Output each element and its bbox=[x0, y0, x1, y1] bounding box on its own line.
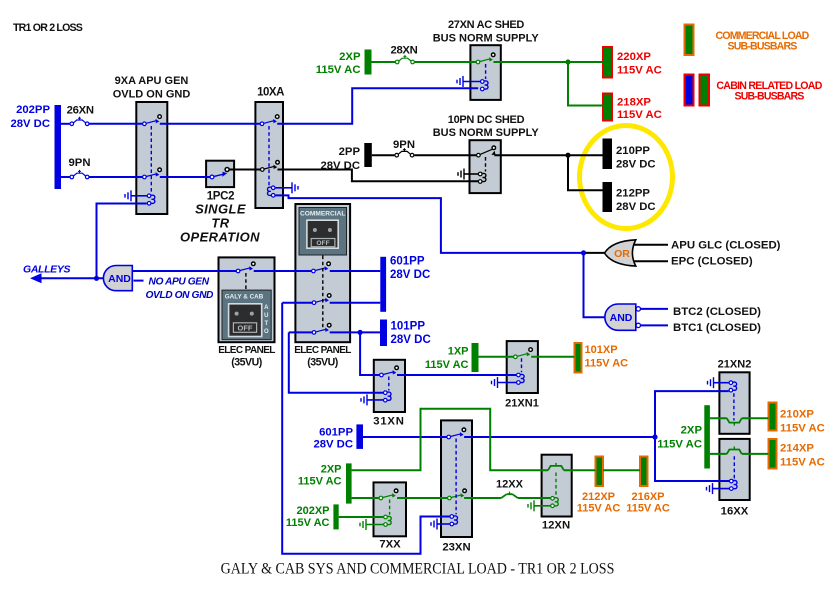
wire ground 21XN1 link bbox=[498, 382, 517, 384]
coil 23XN bbox=[450, 515, 457, 526]
wire 2XP to 7XX bbox=[352, 497, 379, 499]
svg-text:28V DC: 28V DC bbox=[390, 269, 430, 281]
wire 16XX contact to 214XP left bbox=[710, 453, 727, 455]
elec panel 35VU left box bbox=[219, 257, 275, 342]
wire 10XA coil to OR junction bbox=[275, 195, 581, 253]
wire node up to 21XN2 coil bbox=[655, 391, 729, 437]
svg-text:216XP: 216XP bbox=[631, 491, 664, 503]
coil 21XN2 bbox=[729, 381, 737, 392]
svg-text:2PP: 2PP bbox=[339, 146, 361, 158]
wire OR node down to AND bbox=[584, 253, 605, 317]
busbar 220XP bbox=[603, 47, 612, 78]
junction 220XP feed bbox=[565, 59, 570, 64]
svg-text:BTC1 (CLOSED): BTC1 (CLOSED) bbox=[673, 322, 761, 334]
svg-text:OR: OR bbox=[614, 248, 630, 260]
svg-text:115V AC: 115V AC bbox=[617, 109, 662, 121]
wire 10PN to 210PP bbox=[494, 154, 602, 156]
svg-text:21XN1: 21XN1 bbox=[505, 398, 539, 410]
svg-text:212PP: 212PP bbox=[616, 188, 650, 200]
svg-text:OVLD ON GND: OVLD ON GND bbox=[146, 290, 215, 301]
wire 7XX to 23XN row2 bbox=[397, 497, 447, 499]
svg-text:2XP: 2XP bbox=[681, 425, 703, 437]
elec panel 35VU middle box bbox=[295, 204, 350, 342]
wire 10XA to 10PN coil bbox=[278, 170, 479, 182]
svg-text:601PP: 601PP bbox=[390, 256, 425, 268]
svg-text:214XP: 214XP bbox=[780, 443, 814, 455]
busbar 1XP bbox=[472, 343, 479, 372]
busbar 218XP bbox=[603, 94, 612, 121]
contact 9XA row1 bbox=[143, 115, 162, 126]
dashed link 9XA bbox=[150, 126, 152, 193]
svg-text:115V AC: 115V AC bbox=[316, 64, 361, 76]
circuit breaker 26XN bbox=[70, 117, 89, 126]
svg-text:TR1 OR 2 LOSS: TR1 OR 2 LOSS bbox=[13, 22, 83, 34]
svg-text:28V DC: 28V DC bbox=[616, 159, 656, 171]
inverter bubble BTC1 bbox=[636, 323, 640, 327]
wire AND input BTC2 bbox=[641, 308, 668, 310]
AND gate right (BTC) bbox=[605, 304, 636, 330]
busbar 202PP bbox=[55, 105, 62, 189]
svg-text:115V AC: 115V AC bbox=[626, 503, 670, 515]
svg-text:EPC (CLOSED): EPC (CLOSED) bbox=[671, 256, 753, 268]
coil 9XA bbox=[147, 194, 155, 205]
wire 101PP node down to 31XN bbox=[360, 332, 379, 375]
svg-text:23XN: 23XN bbox=[442, 542, 470, 554]
wire 9PN to 10PN bbox=[414, 154, 476, 156]
svg-text:202PP: 202PP bbox=[16, 104, 50, 116]
svg-text:212XP: 212XP bbox=[582, 491, 615, 503]
relay 10XA box bbox=[255, 102, 283, 208]
busbar 2XP right bbox=[704, 405, 710, 468]
wire 212XP to 216XP bbox=[603, 469, 640, 471]
wire ground 10XA link bbox=[275, 187, 292, 189]
wire 21XN1 to 101XP bbox=[531, 356, 574, 358]
dashed link 10PN bbox=[485, 157, 487, 172]
contact 10PN bbox=[477, 146, 496, 157]
wire AND output up to 9XA coil bbox=[97, 204, 147, 279]
contact 10XA row1 bbox=[260, 115, 279, 126]
dashed link 21XN1 bbox=[521, 358, 523, 372]
contact 1PC2 bbox=[210, 168, 229, 179]
busbar 101XP bbox=[575, 343, 582, 373]
wire OR input APU GLC bbox=[629, 244, 668, 246]
wire ground 7XX link bbox=[366, 524, 383, 526]
wire ground 10PN link bbox=[464, 173, 478, 175]
busbar 2XP top bbox=[365, 50, 372, 75]
svg-text:2XP: 2XP bbox=[339, 51, 361, 63]
svg-text:BTC2 (CLOSED): BTC2 (CLOSED) bbox=[673, 306, 761, 318]
wire AND-left input2 stub bbox=[134, 280, 144, 282]
svg-text:9PN: 9PN bbox=[69, 157, 91, 169]
relay 21XN2 box bbox=[719, 372, 749, 434]
wire 1PC2 to 10XA black bbox=[229, 169, 260, 171]
svg-text:28V DC: 28V DC bbox=[313, 439, 353, 451]
busbar 601PP lower bbox=[356, 424, 363, 449]
ground 7XX bbox=[360, 519, 366, 530]
wire 1XP to 21XN1 bbox=[479, 356, 514, 358]
ground 31XN bbox=[361, 394, 367, 405]
wire ground 31XN link bbox=[367, 399, 383, 401]
svg-text:115V AC: 115V AC bbox=[780, 457, 825, 469]
wire AND input BTC1 bbox=[641, 324, 668, 326]
svg-text:SUB-BUSBARS: SUB-BUSBARS bbox=[728, 41, 798, 53]
wire 10XA to 27XN coil bbox=[277, 88, 478, 124]
svg-text:NO APU GEN: NO APU GEN bbox=[149, 277, 210, 288]
coil 10XA bbox=[268, 186, 276, 197]
contact 31XN bbox=[380, 366, 399, 377]
wire row3 left segment bbox=[289, 331, 312, 333]
pushbutton GALY & CAB bbox=[222, 290, 271, 340]
wire 202XP to 7XX coil bbox=[339, 516, 384, 518]
svg-text:SUB-BUSBARS: SUB-BUSBARS bbox=[735, 91, 805, 103]
contact 9XA row2 bbox=[143, 168, 162, 179]
junction AND output to 9XA coil bbox=[94, 276, 99, 281]
relay 23XN box bbox=[441, 420, 472, 537]
wire row3 down to 31XN coil bbox=[289, 332, 383, 392]
relay 16XX box bbox=[719, 439, 749, 500]
wire ground 27XN link bbox=[463, 81, 480, 83]
svg-text:ELEC PANEL: ELEC PANEL bbox=[294, 345, 351, 356]
wire row2 down to 23XN coil bbox=[282, 303, 450, 554]
wire ground 9XA link bbox=[131, 195, 147, 197]
coil 12XN bbox=[551, 497, 559, 508]
wire ground 16XX link bbox=[713, 488, 730, 490]
wire 601PP lower to 23XN bbox=[363, 436, 447, 438]
relay 27XN box bbox=[470, 45, 500, 100]
wire AND-left input1 bbox=[133, 270, 236, 272]
svg-text:SINGLE: SINGLE bbox=[195, 202, 246, 217]
legend cabin blue sample bbox=[685, 75, 694, 106]
ground 16XX bbox=[707, 483, 713, 494]
wire 12XX to 12XN coil bbox=[518, 497, 551, 499]
contact 16XX bridge bbox=[727, 447, 742, 454]
relay 12XN box bbox=[542, 455, 572, 517]
relay 1PC2 box bbox=[206, 161, 234, 187]
wire ground 12XN link bbox=[534, 505, 550, 507]
svg-text:115V AC: 115V AC bbox=[585, 358, 629, 370]
wire 26XN to 9XA bbox=[89, 123, 142, 125]
wire 9XA to 10XA row1 bbox=[160, 123, 260, 125]
contact panel2 row2 bbox=[312, 294, 331, 305]
circuit breaker 9PN mid bbox=[395, 148, 414, 157]
wire 202PP to 9PN bbox=[61, 176, 70, 178]
svg-text:(35VU): (35VU) bbox=[231, 357, 262, 369]
contact 23XN row1 bbox=[447, 428, 466, 439]
svg-text:GALY & CAB: GALY & CAB bbox=[225, 294, 264, 301]
wire row2 left segment bbox=[282, 302, 312, 304]
dashed link 31XN bbox=[388, 377, 390, 391]
svg-text:12XX: 12XX bbox=[496, 479, 524, 491]
dashed link panel2 bbox=[322, 256, 324, 331]
relay 10PN box bbox=[470, 140, 501, 193]
wire 31XN to 21XN1 coil bbox=[397, 374, 516, 376]
svg-text:OPERATION: OPERATION bbox=[180, 230, 260, 245]
svg-text:AND: AND bbox=[610, 312, 633, 324]
wire AND-left output to GALLEYS bbox=[41, 277, 104, 279]
wire 2PP to 9PN mid bbox=[372, 154, 395, 156]
svg-text:31XN: 31XN bbox=[373, 416, 404, 428]
busbar 212XP bbox=[596, 457, 604, 487]
wire panel2 row2 to 601PP bbox=[330, 302, 381, 304]
wire 2XP to 28XN bbox=[372, 61, 396, 63]
dashed link 7XX bbox=[389, 500, 391, 515]
dashed link 10XA bbox=[268, 126, 270, 186]
dashed link 23XN bbox=[455, 439, 457, 515]
busbar 212PP bbox=[603, 182, 613, 212]
wire panel2 row1 to 601PP bbox=[330, 270, 381, 272]
OR gate U1 bbox=[605, 240, 636, 266]
wire 28XN to 27XN bbox=[415, 61, 477, 63]
dashed link 27XN bbox=[485, 64, 487, 79]
ground 10PN bbox=[458, 169, 464, 180]
dashed link panel1 bbox=[245, 273, 247, 290]
relay 9XA box bbox=[136, 102, 167, 214]
svg-text:10XA: 10XA bbox=[257, 87, 284, 99]
contact panel1 GALY&CAB bbox=[236, 262, 255, 273]
ground 27XN bbox=[457, 76, 463, 87]
svg-text:115V AC: 115V AC bbox=[298, 476, 342, 488]
wire 21XN2 contact to 210XP right bbox=[742, 417, 769, 419]
svg-text:ELEC PANEL: ELEC PANEL bbox=[218, 345, 275, 356]
pushbutton COMMERCIAL bbox=[299, 208, 347, 256]
wire 23XN to 12XX bbox=[464, 497, 501, 499]
contact 21XN2 bridge bbox=[727, 418, 742, 425]
svg-text:BUS NORM SUPPLY: BUS NORM SUPPLY bbox=[433, 127, 540, 139]
ground 21XN2 bbox=[708, 377, 714, 388]
svg-text:APU GLC (CLOSED): APU GLC (CLOSED) bbox=[671, 240, 781, 252]
svg-text:OFF: OFF bbox=[316, 240, 329, 247]
svg-text:26XN: 26XN bbox=[67, 105, 94, 117]
wire drop to 212PP bbox=[568, 155, 603, 190]
svg-text:21XN2: 21XN2 bbox=[718, 359, 752, 371]
contact 12XN bridge bbox=[548, 463, 564, 470]
contact panel2 row3 bbox=[312, 323, 331, 334]
coil 21XN1 bbox=[517, 373, 525, 384]
svg-text:(35VU): (35VU) bbox=[307, 357, 338, 369]
wire panel1 to panel2 row1 bbox=[254, 270, 312, 272]
busbar 214XP bbox=[769, 439, 777, 469]
contact 10XA row2 bbox=[261, 161, 280, 172]
svg-text:7XX: 7XX bbox=[379, 539, 401, 551]
arrowhead GALLEYS bbox=[30, 273, 42, 283]
legend commercial sub-busbar sample bbox=[685, 25, 694, 56]
wire 202PP to 26XN bbox=[61, 123, 70, 125]
busbar 2XP lower-left bbox=[346, 463, 352, 503]
wire 9XA to 1PC2 bbox=[160, 176, 210, 178]
svg-text:COMMERCIAL: COMMERCIAL bbox=[300, 211, 345, 218]
svg-text:210XP: 210XP bbox=[780, 409, 814, 421]
contact 21XN1 bbox=[514, 348, 533, 359]
contact 23XN row2 bbox=[448, 489, 467, 500]
svg-text:BUS NORM SUPPLY: BUS NORM SUPPLY bbox=[433, 32, 540, 44]
svg-text:101PP: 101PP bbox=[391, 321, 426, 333]
wire 9PN to 9XA row2 bbox=[89, 176, 142, 178]
contact panel2 row1 bbox=[312, 262, 331, 273]
svg-text:1XP: 1XP bbox=[448, 346, 469, 358]
svg-text:12XN: 12XN bbox=[542, 520, 570, 532]
wire OR input EPC bbox=[629, 260, 668, 262]
svg-text:A: A bbox=[264, 305, 269, 311]
wire node down to 16XX coil bbox=[655, 437, 729, 481]
svg-text:10PN DC SHED: 10PN DC SHED bbox=[448, 114, 525, 126]
dashed link 16XX bbox=[733, 456, 735, 479]
svg-text:T: T bbox=[264, 321, 268, 327]
svg-text:AND: AND bbox=[108, 273, 131, 285]
inverter bubble BTC2 bbox=[636, 307, 640, 311]
svg-text:OFF: OFF bbox=[238, 324, 253, 333]
contact 7XX bbox=[379, 489, 398, 500]
relay 31XN box bbox=[374, 360, 405, 412]
coil 16XX bbox=[730, 479, 738, 490]
dashed link 21XN2 bbox=[733, 393, 735, 420]
svg-text:OVLD ON GND: OVLD ON GND bbox=[113, 89, 191, 101]
svg-text:115V AC: 115V AC bbox=[577, 503, 621, 515]
coil 27XN bbox=[481, 80, 489, 91]
svg-text:28XN: 28XN bbox=[390, 44, 417, 56]
wire 23XN to 2XP-right node bbox=[464, 436, 655, 438]
contact 27XN bbox=[476, 53, 495, 64]
svg-text:9XA APU GEN: 9XA APU GEN bbox=[115, 75, 189, 87]
AND gate left (GALLEYS) bbox=[103, 266, 132, 291]
svg-text:GALY & CAB SYS AND COMMERCIAL: GALY & CAB SYS AND COMMERCIAL LOAD - TR1… bbox=[221, 560, 615, 578]
busbar 202XP bbox=[333, 504, 338, 529]
busbar 216XP bbox=[640, 457, 648, 487]
yellow highlight ellipse around 210PP/212PP bbox=[580, 126, 673, 229]
svg-text:28V DC: 28V DC bbox=[10, 118, 50, 130]
busbar 2PP bbox=[364, 143, 372, 167]
wire ground 21XN2 link bbox=[714, 382, 729, 384]
svg-text:115V AC: 115V AC bbox=[286, 517, 330, 529]
wire drop to 218XP bbox=[568, 62, 603, 106]
svg-text:TR: TR bbox=[211, 216, 229, 231]
ground 9XA bbox=[125, 190, 131, 201]
dashed link 12XN bbox=[555, 473, 557, 497]
svg-text:218XP: 218XP bbox=[617, 97, 651, 109]
relay 7XX box bbox=[374, 482, 407, 536]
busbar 601PP upper bbox=[380, 257, 386, 312]
svg-text:115V AC: 115V AC bbox=[617, 65, 662, 77]
wire 2XP bridge over 23XN bbox=[352, 409, 548, 471]
wire 21XN2 contact to 210XP left bbox=[710, 417, 727, 419]
wire 27XN to 220XP bbox=[493, 61, 603, 63]
ground 21XN1 bbox=[492, 377, 498, 388]
svg-text:202XP: 202XP bbox=[296, 505, 329, 517]
ground 10XA bbox=[292, 182, 298, 193]
svg-text:210PP: 210PP bbox=[616, 145, 650, 157]
svg-text:101XP: 101XP bbox=[585, 344, 618, 356]
svg-text:2XP: 2XP bbox=[321, 464, 342, 476]
junction OR-AND node bbox=[581, 250, 586, 255]
coil 7XX bbox=[384, 515, 392, 526]
circuit breaker 12XX bbox=[501, 492, 518, 498]
busbar 210PP bbox=[603, 139, 613, 170]
svg-text:28V DC: 28V DC bbox=[391, 334, 431, 346]
circuit breaker 28XN bbox=[395, 55, 414, 64]
ground 12XN bbox=[528, 500, 534, 511]
junction 101PP node bbox=[358, 330, 363, 335]
svg-text:601PP: 601PP bbox=[319, 427, 353, 439]
ground 23XN bbox=[431, 519, 437, 530]
svg-text:28V DC: 28V DC bbox=[616, 201, 656, 213]
wire junction to OR gate bbox=[584, 252, 605, 254]
coil 31XN bbox=[384, 391, 392, 402]
junction 210PP feed bbox=[565, 153, 570, 158]
svg-text:GALLEYS: GALLEYS bbox=[23, 263, 70, 275]
svg-text:115V AC: 115V AC bbox=[425, 359, 469, 371]
legend cabin green sample bbox=[700, 75, 710, 106]
wire panel2 row3 to 101PP bbox=[330, 331, 380, 333]
circuit breaker 9PN left bbox=[70, 170, 89, 179]
svg-text:16XX: 16XX bbox=[721, 506, 749, 518]
coil 10PN bbox=[478, 172, 486, 183]
svg-text:115V AC: 115V AC bbox=[780, 423, 825, 435]
svg-text:U: U bbox=[264, 313, 268, 319]
svg-text:O: O bbox=[264, 329, 269, 335]
relay 21XN1 box bbox=[507, 341, 538, 393]
svg-text:27XN AC SHED: 27XN AC SHED bbox=[448, 19, 524, 31]
junction 2XP right node bbox=[652, 434, 657, 439]
svg-text:115V AC: 115V AC bbox=[657, 439, 702, 451]
wire 16XX contact to 214XP right bbox=[742, 453, 769, 455]
svg-text:220XP: 220XP bbox=[617, 51, 651, 63]
busbar 101PP bbox=[380, 320, 387, 347]
busbar 210XP bbox=[769, 403, 777, 431]
wire 12XN to 212XP bbox=[564, 469, 596, 471]
wire ground 23XN link bbox=[437, 523, 450, 525]
